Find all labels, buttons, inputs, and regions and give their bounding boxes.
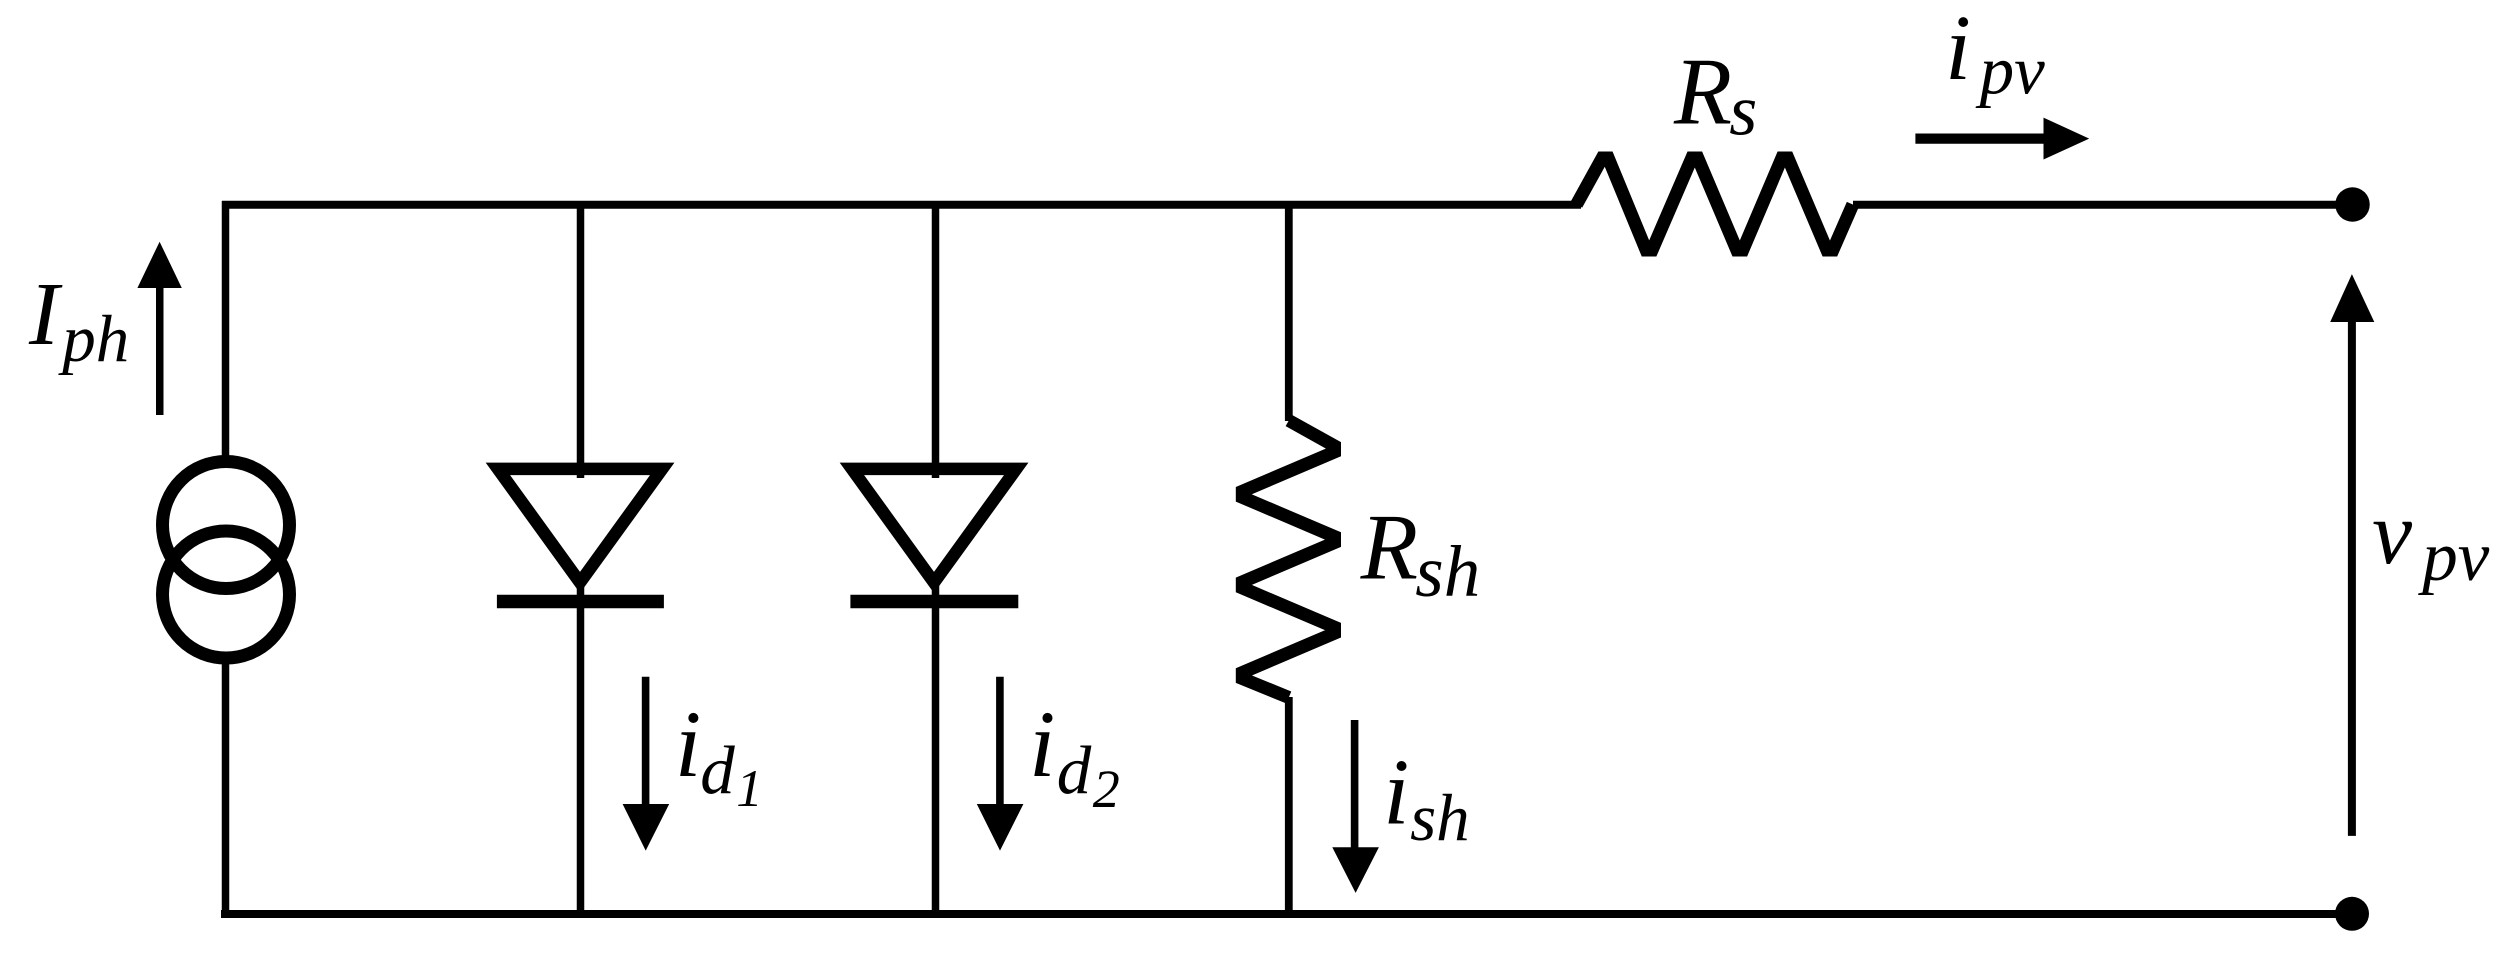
svg-text:R: R bbox=[1360, 496, 1418, 600]
diode D2 bar bbox=[850, 595, 1018, 609]
svg-text:pv: pv bbox=[1975, 32, 2046, 108]
svg-text:ph: ph bbox=[58, 302, 129, 376]
current source I_ph bbox=[163, 462, 290, 659]
arrow I_ph bbox=[137, 242, 181, 415]
svg-text:s: s bbox=[1729, 71, 1757, 151]
wire diode1 bottom bbox=[577, 584, 585, 913]
svg-text:1: 1 bbox=[736, 760, 763, 818]
arrow i_pv bbox=[1915, 118, 2089, 160]
svg-text:sh: sh bbox=[1415, 531, 1480, 612]
svg-text:d: d bbox=[700, 732, 735, 808]
diode D2 triangle bbox=[852, 469, 1016, 583]
svg-text:v: v bbox=[2372, 484, 2412, 583]
svg-text:I: I bbox=[28, 265, 63, 364]
node terminal top dot bbox=[2335, 187, 2370, 222]
node terminal bottom dot bbox=[2335, 897, 2369, 931]
wire diode2 top bbox=[932, 201, 940, 478]
resistor R_s zigzag bbox=[1577, 158, 1853, 250]
svg-text:d: d bbox=[1057, 732, 1092, 808]
svg-text:sh: sh bbox=[1410, 781, 1470, 855]
wire left vertical upper bbox=[222, 201, 230, 458]
wire top right horizontal bbox=[1853, 201, 2353, 209]
wire Rsh top bbox=[1285, 201, 1293, 421]
wire Rsh bottom bbox=[1285, 697, 1293, 913]
svg-text:R: R bbox=[1673, 39, 1732, 145]
diode D1 triangle bbox=[498, 469, 662, 583]
diode D1 bar bbox=[497, 595, 664, 609]
arrow i_d1 bbox=[623, 677, 670, 851]
svg-text:i: i bbox=[1029, 691, 1055, 797]
wire bottom horizontal bbox=[221, 910, 2352, 918]
svg-text:i: i bbox=[1383, 741, 1409, 845]
resistor R_sh zigzag bbox=[1242, 421, 1334, 698]
svg-text:i: i bbox=[675, 691, 701, 797]
wire diode2 bottom bbox=[932, 584, 940, 913]
svg-text:2: 2 bbox=[1093, 759, 1120, 819]
arrow i_d2 bbox=[977, 677, 1024, 851]
wire left vertical lower bbox=[222, 662, 230, 918]
wire diode1 top bbox=[577, 201, 585, 478]
svg-text:pv: pv bbox=[2417, 518, 2490, 596]
wire top left horizontal bbox=[222, 201, 1581, 209]
arrow v_pv bbox=[2330, 274, 2374, 836]
svg-text:i: i bbox=[1945, 0, 1971, 100]
arrow i_sh bbox=[1332, 720, 1379, 893]
